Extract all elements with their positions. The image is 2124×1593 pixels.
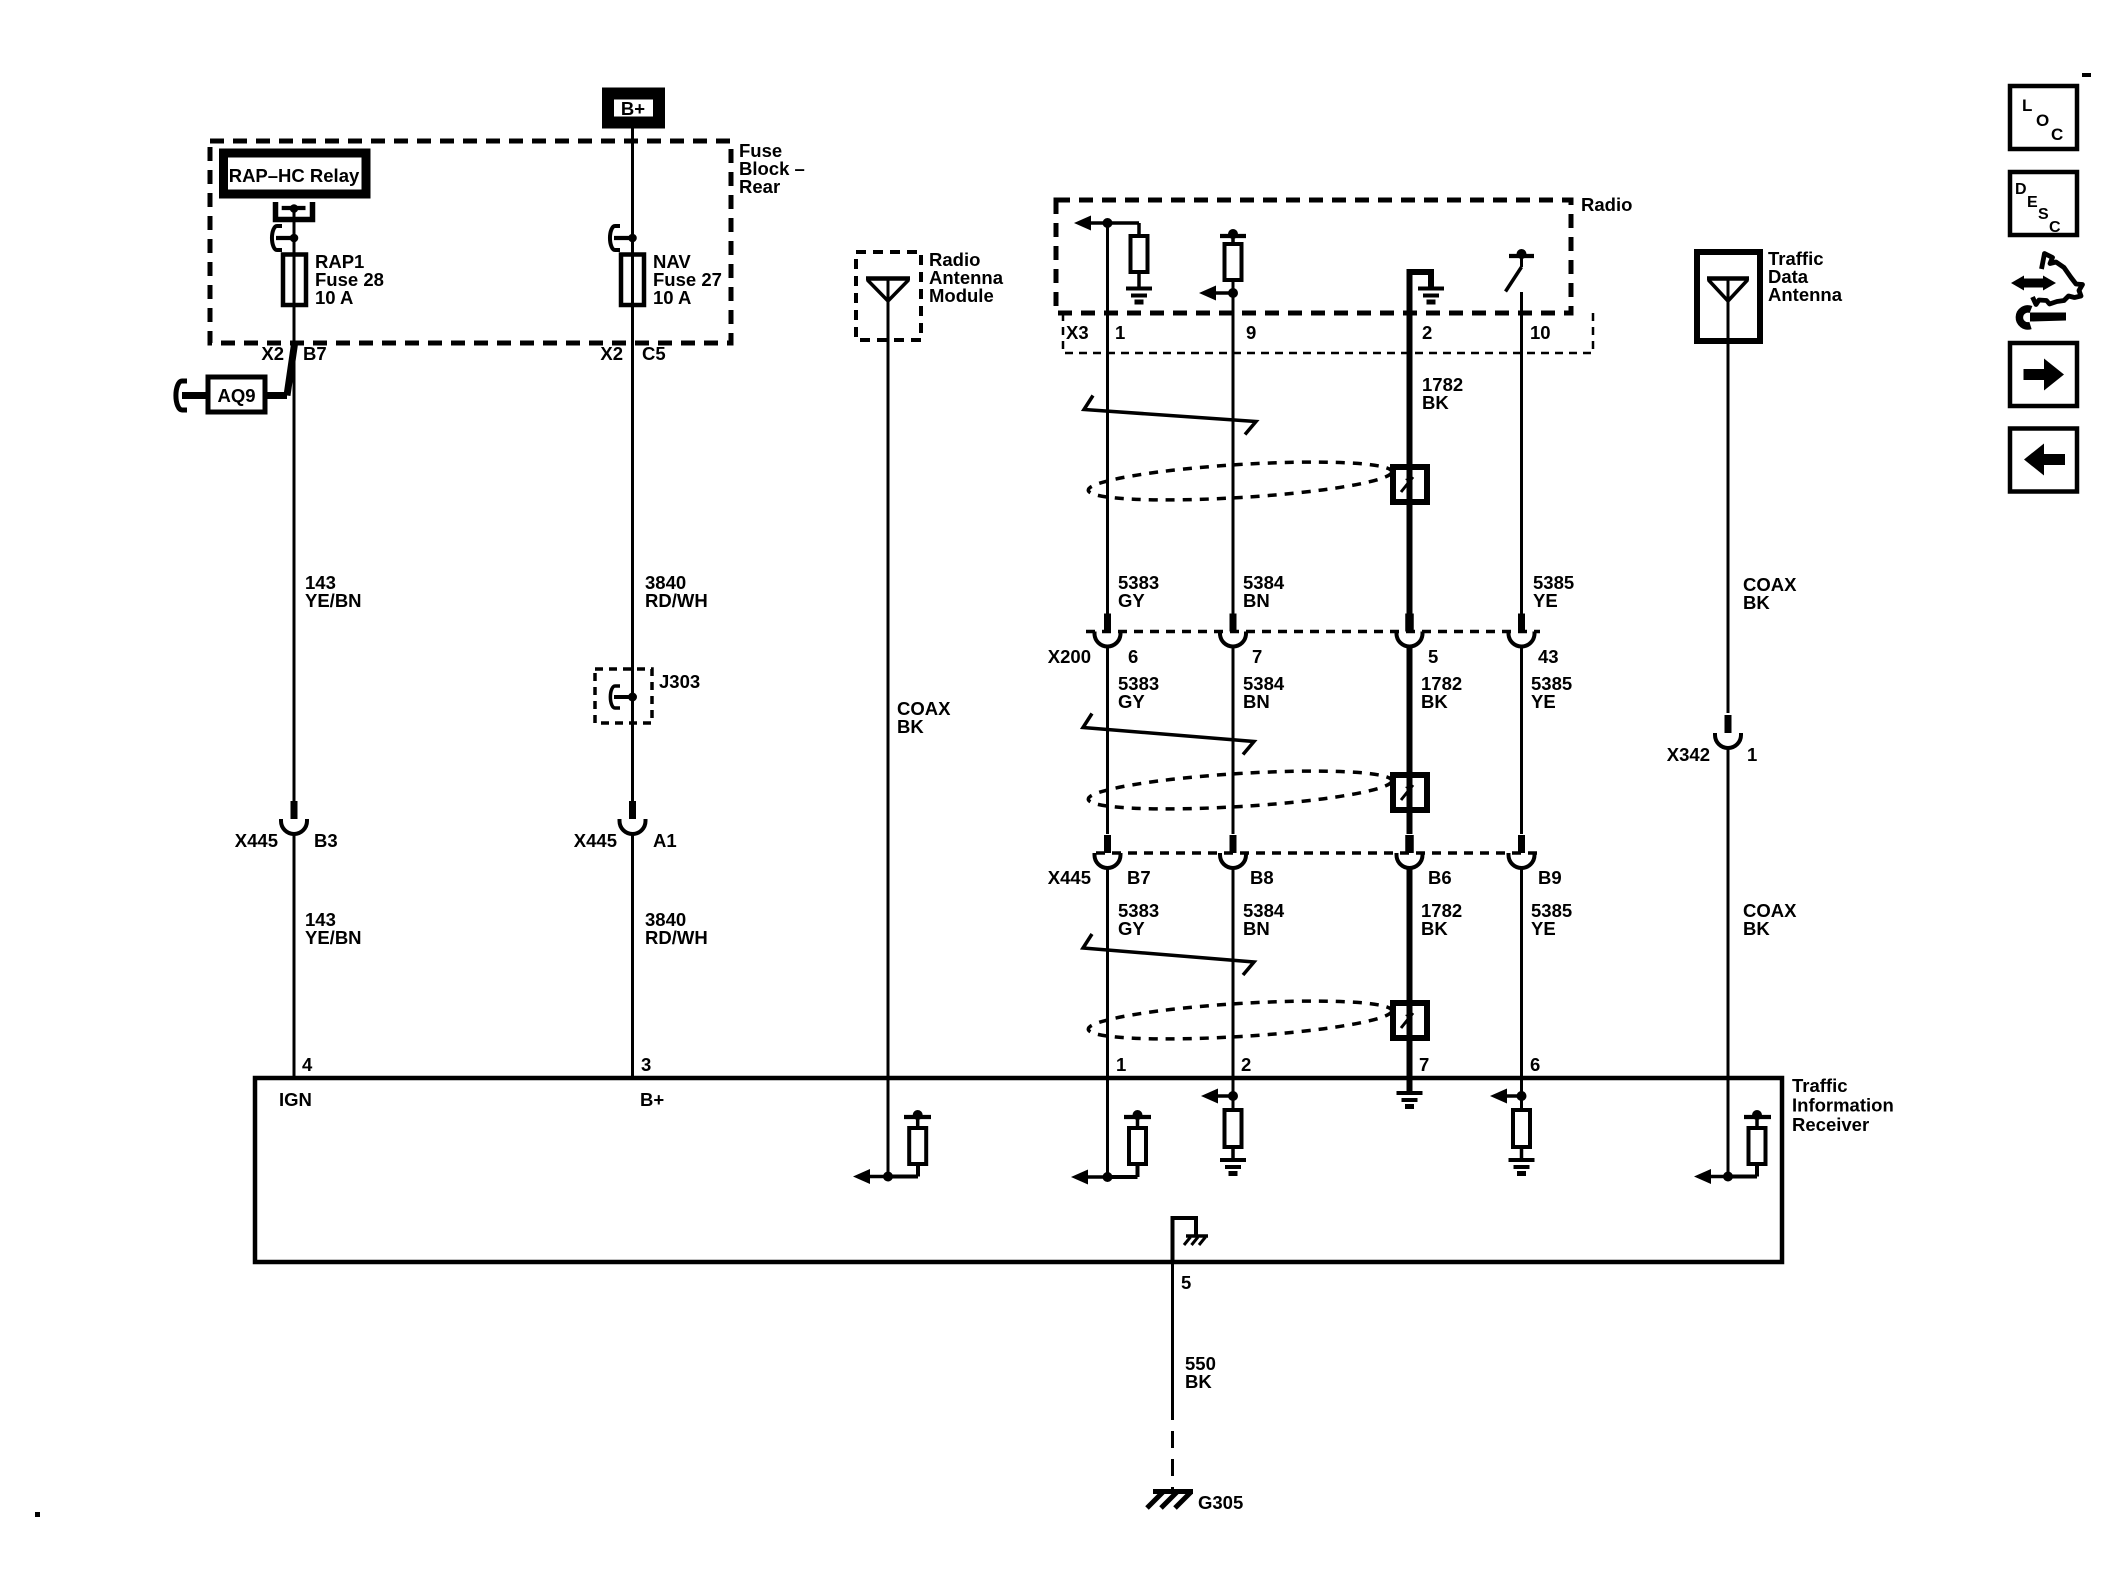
svg-text:B7: B7 — [303, 343, 327, 364]
connector X445 pin B3 — [281, 801, 307, 834]
svg-text:1: 1 — [1747, 744, 1757, 765]
wire 143 from X445 to receiver — [293, 834, 296, 1078]
svg-text:BK: BK — [1422, 392, 1449, 413]
svg-text:YE/BN: YE/BN — [305, 927, 362, 948]
label 1782 BK row2 — [1421, 673, 1462, 712]
shield ellipse 1 — [1087, 455, 1392, 506]
label J303 — [659, 671, 700, 692]
label 5385 YE row2 — [1531, 673, 1572, 712]
shield termination box 2 — [1393, 775, 1427, 810]
svg-text:BK: BK — [1421, 918, 1448, 939]
wire 5384 radio to X200 — [1232, 353, 1235, 614]
svg-text:E: E — [2027, 194, 2038, 211]
pin 7 label TIR — [1419, 1054, 1429, 1075]
branch hook at RAP1 — [272, 226, 298, 250]
label X445 B3 — [235, 830, 338, 851]
pin 43 label X200 — [1538, 646, 1559, 667]
wire 5384 X200 to X445 — [1232, 646, 1235, 834]
svg-text:BK: BK — [1421, 691, 1448, 712]
svg-text:O: O — [2036, 111, 2049, 130]
svg-text:GY: GY — [1118, 590, 1145, 611]
svg-text:43: 43 — [1538, 646, 1559, 667]
label 1782 BK row3 — [1421, 900, 1462, 939]
icon DESC box — [2010, 172, 2077, 236]
traffic data antenna box — [1697, 252, 1760, 341]
shield termination box 3 — [1393, 1003, 1427, 1038]
svg-text:Antenna: Antenna — [1768, 284, 1843, 305]
svg-text:BN: BN — [1243, 691, 1270, 712]
svg-text:6: 6 — [1530, 1054, 1540, 1075]
receiver pin6 input — [1490, 1078, 1530, 1160]
wire 5383 X200 to X445 — [1106, 646, 1109, 834]
svg-text:J303: J303 — [659, 671, 700, 692]
svg-text:B6: B6 — [1428, 867, 1452, 888]
pin B6 label — [1428, 867, 1452, 888]
shield ellipse 2 — [1087, 764, 1392, 815]
svg-text:B7: B7 — [1127, 867, 1151, 888]
svg-text:BN: BN — [1243, 918, 1270, 939]
svg-text:7: 7 — [1419, 1054, 1429, 1075]
connector X200 pin 7 — [1220, 614, 1246, 647]
fuse RAP1 Fuse 28 10A — [283, 255, 306, 306]
wire coax traffic antenna upper — [1727, 341, 1730, 713]
connector X445 dashed line — [1096, 851, 1540, 855]
svg-text:C: C — [2049, 219, 2061, 236]
wire 1782 radio to X200 — [1407, 353, 1413, 614]
svg-text:GY: GY — [1118, 918, 1145, 939]
label 1782 BK row1 — [1422, 374, 1463, 413]
label Traffic Information Receiver — [1792, 1075, 1894, 1135]
svg-text:Traffic: Traffic — [1792, 1075, 1848, 1096]
wire 1782 X200 to X445 — [1407, 646, 1413, 834]
label 143 YE/BN upper — [305, 572, 362, 611]
fuse block - rear dashed box — [210, 141, 731, 343]
label Radio — [1581, 194, 1632, 215]
svg-text:X200: X200 — [1048, 646, 1091, 667]
pin B7 label — [1127, 867, 1151, 888]
svg-text:YE: YE — [1531, 918, 1556, 939]
pin 1 label TIR — [1116, 1054, 1126, 1075]
radio pin10 switch — [1506, 249, 1535, 292]
radio dashed box — [1056, 200, 1571, 313]
label 5383 GY row1 — [1118, 572, 1159, 611]
svg-text:B+: B+ — [640, 1089, 664, 1110]
label X200 — [1048, 646, 1091, 667]
label 5383 GY row2 — [1118, 673, 1159, 712]
svg-text:1: 1 — [1115, 322, 1125, 343]
label Fuse Block - Rear — [739, 140, 805, 197]
pin 7 label X200 — [1252, 646, 1262, 667]
svg-text:GY: GY — [1118, 691, 1145, 712]
svg-text:B+: B+ — [621, 98, 645, 119]
connector X342 pin 1 — [1715, 715, 1741, 748]
fuse NAV Fuse 27 10A — [621, 255, 644, 306]
svg-text:X2: X2 — [600, 343, 623, 364]
svg-text:Rear: Rear — [739, 176, 780, 197]
connector X200 pin 6 — [1095, 614, 1121, 647]
svg-text:RD/WH: RD/WH — [645, 927, 708, 948]
label 5383 GY row3 — [1118, 900, 1159, 939]
label 3840 RD/WH upper — [645, 572, 708, 611]
svg-text:B3: B3 — [314, 830, 338, 851]
pin 2 label TIR — [1241, 1054, 1251, 1075]
traffic information receiver box — [255, 1078, 1782, 1262]
svg-text:4: 4 — [302, 1054, 313, 1075]
pin 1 label X3 — [1115, 322, 1125, 343]
svg-text:BK: BK — [1185, 1371, 1212, 1392]
B+ battery feed box — [608, 94, 659, 123]
wire 5384 X445 to receiver — [1232, 868, 1235, 1078]
svg-text:A1: A1 — [653, 830, 677, 851]
radio pin1 output arrow — [1074, 216, 1113, 231]
svg-text:G305: G305 — [1198, 1492, 1243, 1513]
pin 10 label X3 — [1530, 322, 1551, 343]
svg-text:X3: X3 — [1066, 322, 1089, 343]
wire 5385 X200 to X445 — [1520, 646, 1523, 834]
svg-text:S: S — [2038, 206, 2049, 223]
pin 5 label X200 — [1428, 646, 1438, 667]
svg-text:3: 3 — [641, 1054, 651, 1075]
wire 550 BK dashed — [1171, 1431, 1174, 1493]
receiver pin7 ground wire — [1407, 1078, 1413, 1092]
svg-text:Radio: Radio — [1581, 194, 1632, 215]
label X342 1 — [1667, 744, 1758, 765]
icon vehicle wrench — [2011, 254, 2083, 326]
radio pin1 resistor branch — [1108, 223, 1148, 287]
svg-text:6: 6 — [1128, 646, 1138, 667]
radio pin9 resistor — [1220, 229, 1246, 353]
wire 143 from RAP1 fuse to X445 — [293, 305, 296, 801]
svg-text:B8: B8 — [1250, 867, 1274, 888]
label NAV Fuse 27 10 A — [653, 251, 722, 308]
connector AQ9 box — [208, 377, 265, 412]
svg-text:B9: B9 — [1538, 867, 1562, 888]
wire radio pin1 to connector — [1106, 223, 1109, 353]
wire B+ down to NAV fuse — [631, 128, 634, 255]
svg-text:X445: X445 — [574, 830, 617, 851]
svg-text:X445: X445 — [235, 830, 278, 851]
ground receiver pin6 — [1509, 1160, 1535, 1174]
svg-text:Receiver: Receiver — [1792, 1114, 1869, 1135]
label 5385 YE row3 — [1531, 900, 1572, 939]
label COAX BK wire C — [897, 698, 951, 737]
svg-text:YE: YE — [1531, 691, 1556, 712]
connector X200 dashed line — [1086, 630, 1540, 634]
svg-text:7: 7 — [1252, 646, 1262, 667]
label Traffic Data Antenna — [1768, 248, 1843, 305]
svg-text:L: L — [2022, 96, 2032, 115]
connector X2 pin B7 labels — [261, 343, 326, 364]
svg-text:YE/BN: YE/BN — [305, 590, 362, 611]
connector X445 pin B8 — [1220, 835, 1246, 868]
pin B9 label — [1538, 867, 1562, 888]
wire 5383 radio to X200 — [1106, 353, 1109, 614]
pin 2 label X3 — [1422, 322, 1432, 343]
connector X445 pin B9 — [1509, 835, 1535, 868]
ground radio pin2 — [1418, 289, 1444, 303]
label X3 — [1066, 322, 1089, 343]
svg-text:BK: BK — [1743, 918, 1770, 939]
radio connector strip X3 — [1063, 313, 1593, 353]
label COAX BK wire H upper — [1743, 574, 1797, 613]
svg-text:C: C — [2051, 125, 2063, 144]
connector X200 pin 5 — [1397, 614, 1423, 647]
svg-text:5: 5 — [1428, 646, 1438, 667]
twisted pair symbol 2 — [1083, 714, 1254, 755]
radio pin2 ground wire — [1410, 272, 1432, 353]
label B+ pin3 — [640, 1089, 664, 1110]
label 3840 RD/WH lower — [645, 909, 708, 948]
svg-text:X445: X445 — [1048, 867, 1091, 888]
icon LOC box — [2010, 86, 2077, 149]
svg-text:RD/WH: RD/WH — [645, 590, 708, 611]
label 550 BK — [1185, 1353, 1216, 1392]
label IGN — [279, 1089, 312, 1110]
label G305 — [1198, 1492, 1243, 1513]
label X445 row2 — [1048, 867, 1091, 888]
connector X200 pin 43 — [1509, 614, 1535, 647]
wire 5385 X445 to receiver — [1520, 868, 1523, 1078]
receiver pin1 input — [1071, 1078, 1151, 1185]
wire coax traffic antenna lower — [1727, 748, 1730, 1078]
connector X445 pin A1 — [620, 801, 646, 834]
circuit AQ9 branch wire — [176, 344, 295, 410]
label 5384 BN row1 — [1243, 572, 1285, 611]
receiver coax H input — [1694, 1078, 1771, 1184]
svg-text:D: D — [2015, 181, 2027, 198]
radio antenna module dashed box — [856, 252, 921, 340]
svg-text:9: 9 — [1246, 322, 1256, 343]
label COAX BK wire H lower — [1743, 900, 1797, 939]
svg-text:10 A: 10 A — [315, 287, 353, 308]
svg-text:BK: BK — [1743, 592, 1770, 613]
wire relay to fuse RAP1 — [293, 209, 296, 256]
wire 3840 from X445 to receiver — [631, 834, 634, 1078]
label Radio Antenna Module — [929, 249, 1004, 306]
pin 4 label — [302, 1054, 313, 1075]
label X445 A1 — [574, 830, 677, 851]
wire coax radio antenna — [887, 340, 890, 1078]
svg-text:10: 10 — [1530, 322, 1551, 343]
svg-text:X2: X2 — [261, 343, 284, 364]
label 5385 YE row1 — [1533, 572, 1574, 611]
label RAP-HC Relay — [229, 165, 360, 186]
twisted pair symbol 1 — [1084, 396, 1256, 435]
pin 6 label TIR — [1530, 1054, 1540, 1075]
pin 5 label — [1181, 1272, 1191, 1293]
splice J303 — [595, 669, 652, 723]
twisted pair symbol 3 — [1083, 934, 1254, 975]
wire 3840 from NAV fuse to J303 — [631, 305, 634, 801]
wire radio pin10 to connector — [1520, 292, 1523, 353]
svg-text:10 A: 10 A — [653, 287, 691, 308]
antenna symbol radio antenna module — [866, 279, 910, 341]
connector X445 pin B7 — [1095, 835, 1121, 868]
receiver coax C input — [853, 1078, 931, 1184]
svg-text:5: 5 — [1181, 1272, 1191, 1293]
svg-text:C5: C5 — [642, 343, 666, 364]
ground receiver pin7 — [1397, 1093, 1423, 1107]
label 5384 BN row2 — [1243, 673, 1285, 712]
connector X445 pin B6 — [1397, 835, 1423, 868]
svg-text:2: 2 — [1241, 1054, 1251, 1075]
receiver pin2 input — [1201, 1078, 1242, 1160]
shield ellipse 3 — [1087, 994, 1392, 1045]
svg-text:X342: X342 — [1667, 744, 1710, 765]
svg-text:BK: BK — [897, 716, 924, 737]
antenna symbol traffic data antenna — [1707, 279, 1749, 342]
branch hook at NAV — [610, 226, 637, 250]
pin B8 label — [1250, 867, 1274, 888]
shield termination box 1 — [1393, 467, 1427, 502]
relay RAP-HC Relay box — [224, 153, 367, 194]
pin 9 label X3 — [1246, 322, 1256, 343]
svg-text:1: 1 — [1116, 1054, 1126, 1075]
svg-text:Module: Module — [929, 285, 994, 306]
wire 550 BK solid — [1171, 1262, 1174, 1420]
pin 6 label X200 — [1128, 646, 1138, 667]
label 5384 BN row3 — [1243, 900, 1285, 939]
svg-text:IGN: IGN — [279, 1089, 312, 1110]
svg-text:YE: YE — [1533, 590, 1558, 611]
ground receiver pin2 — [1220, 1160, 1246, 1174]
connector X2 pin C5 labels — [600, 343, 665, 364]
svg-text:RAP–HC Relay: RAP–HC Relay — [229, 165, 360, 186]
label 143 YE/BN lower — [305, 909, 362, 948]
pin 3 label — [641, 1054, 651, 1075]
svg-text:BN: BN — [1243, 590, 1270, 611]
label B+ — [621, 98, 645, 119]
ground G305 — [1147, 1492, 1193, 1509]
icon back arrow box — [2010, 429, 2077, 492]
relay contact bracket — [276, 202, 313, 220]
radio pin9 arrow — [1199, 286, 1238, 301]
receiver pin5 chassis ground — [1173, 1218, 1209, 1261]
svg-text:Information: Information — [1792, 1095, 1894, 1116]
ground radio pin1 — [1126, 289, 1152, 303]
label AQ9 — [217, 385, 255, 406]
wire 5383 X445 to receiver — [1106, 868, 1109, 1078]
wire 1782 X445 to receiver — [1407, 868, 1413, 1078]
svg-text:AQ9: AQ9 — [217, 385, 255, 406]
icon forward arrow box — [2010, 343, 2077, 406]
label RAP1 Fuse 28 10 A — [315, 251, 384, 308]
svg-text:2: 2 — [1422, 322, 1432, 343]
wire 5385 radio to X200 — [1520, 353, 1523, 614]
